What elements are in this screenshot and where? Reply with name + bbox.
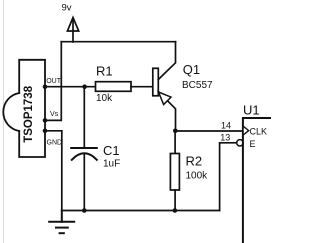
ground bus wire	[62, 210, 220, 212]
junction node OUT/C1	[82, 84, 87, 89]
wire R1 to base	[131, 86, 153, 88]
junction node C1/ground	[82, 208, 87, 213]
transistor Q1 collector lead	[158, 42, 175, 80]
resistor R2	[170, 154, 179, 191]
wire OUT to R1	[45, 86, 96, 88]
capacitor C1 top plate	[71, 147, 97, 149]
svg-text:R2: R2	[186, 154, 203, 169]
junction node R2/ground	[173, 208, 178, 213]
svg-text:BC557: BC557	[182, 80, 213, 91]
transistor Q1 emitter arrow	[159, 92, 172, 105]
svg-text:13: 13	[220, 133, 230, 143]
wire top rail	[61, 41, 175, 43]
pin13 inversion bubble	[237, 140, 243, 146]
svg-text:GND: GND	[47, 140, 63, 147]
svg-text:100k: 100k	[186, 171, 209, 182]
svg-text:9v: 9v	[62, 3, 72, 14]
wire Vs to rail	[45, 42, 61, 121]
svg-text:10k: 10k	[96, 93, 113, 104]
svg-text:14: 14	[221, 120, 231, 130]
svg-text:U1: U1	[243, 103, 260, 118]
svg-text:Q1: Q1	[183, 62, 200, 77]
wire pin14	[175, 130, 243, 132]
pin dot GND	[43, 129, 48, 134]
svg-text:Vs: Vs	[50, 111, 59, 118]
svg-text:R1: R1	[96, 64, 113, 79]
wire emitter to R2	[174, 131, 176, 154]
capacitor C1 curved plate	[72, 153, 97, 160]
svg-text:1uF: 1uF	[103, 159, 120, 170]
TSOP1738 body	[3, 60, 45, 157]
svg-text:CLK: CLK	[250, 127, 268, 137]
junction node emitter/R2/pin14	[173, 129, 178, 134]
transistor Q1 base bar	[153, 68, 159, 96]
wire GND pin down	[45, 131, 62, 211]
resistor R1	[96, 82, 132, 92]
svg-text:OUT: OUT	[46, 78, 62, 85]
pin dot Vs	[43, 118, 48, 123]
wire pin13	[220, 143, 237, 211]
IC U1 box	[243, 118, 271, 243]
transistor Q1 emitter lead	[158, 92, 175, 131]
capacitor C1 bottom lead	[83, 153, 85, 210]
clock pin triangle	[244, 127, 249, 135]
ground symbol	[49, 211, 74, 234]
wire R2 to ground	[174, 190, 176, 211]
power arrow VCC	[67, 18, 78, 43]
pin dot OUT	[43, 84, 48, 89]
svg-text:E: E	[250, 139, 256, 149]
svg-text:C1: C1	[103, 143, 120, 158]
svg-text:TSOP1738: TSOP1738	[23, 85, 35, 142]
capacitor C1 top lead	[83, 87, 85, 148]
